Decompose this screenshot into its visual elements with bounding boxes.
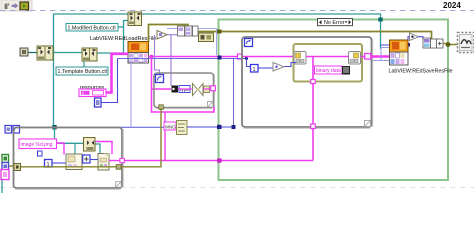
type box structure [154,73,215,109]
LoadResFile VI icon (orange) [128,42,149,53]
pink stub into type box [152,88,172,90]
long pink wire to case structure [125,160,314,162]
small tan node before tunnel [204,86,210,93]
blue wiring inside frame [245,57,296,68]
olive tunnel on loop left edge [14,164,21,171]
pink wire label to format node [57,143,65,155]
registration icon pair at left [5,126,20,134]
merge errors tan node [199,33,214,42]
pink tunnel on loop right edge [120,158,124,162]
frame corner icon (blue) [245,39,253,47]
blue tunnel on green left edge (bottom) [217,125,222,129]
terminal: error cluster (green) [2,155,9,163]
concat strings dark node [342,66,350,75]
black get-type node [172,86,179,93]
pink vertical via MNG label [164,112,166,161]
small blue node in loop [38,151,43,156]
pink vertical bus x=151.5 [152,57,215,113]
svg-text:type: type [180,87,189,93]
olive tunnel on type box bottom [159,105,164,110]
pink tunnel on frame bottom [311,124,316,129]
variant bowtie node [193,84,204,96]
violet vertical x=233.5 [233,59,235,126]
blue tunnel on green left edge [218,56,222,60]
terminal: refnum (blue) [2,163,9,171]
swap node top (lock ref) [128,12,142,26]
terminal: string (pink) [1,170,9,180]
teal wire at far bottom-left edge [1,180,3,193]
toolbar broken-run icon [5,3,10,9]
toolbar panel [1,0,32,11]
pink string bus junction at LoadRes output [150,55,154,59]
error out icon terminal [458,33,474,53]
pink wire swap to write icon [96,142,113,155]
error case structure (green border) [219,20,449,181]
pink wire inside IPE [306,56,365,58]
lavender wire upper run [167,29,217,56]
teal tunnel on green top edge [378,18,382,22]
register events node A [37,46,53,60]
frame corner fold [365,121,371,127]
olive tunnel on green left edge (top) [217,30,222,34]
pink wire inside type box [178,88,211,90]
MNG constant icon [177,121,188,135]
toolbar arrow icon [12,4,18,9]
numeric constant 1 [251,65,259,73]
olive wire node row to tunnel [443,44,459,45]
violet wire to blue icon of type box [155,35,160,75]
teal wire to swap node in bottom-left loop [55,129,84,154]
big gray frame (outer structure) [242,37,373,128]
blue junction square x=233.5 [232,125,236,129]
in-place element structure [294,44,363,82]
DVR write node [349,52,361,65]
binary data label [315,66,343,74]
blue wire from 8 icon to bus [101,59,118,103]
event reg refnum boxes [178,26,199,36]
loop corner fold [116,182,122,188]
increment triangle [273,63,284,72]
pink tunnel on IPE bottom [311,80,316,84]
pink wire write node to tunnel [109,160,120,162]
svg-text:1.Template Button.ctl: 1.Template Button.ctl [58,69,107,75]
minus-one node [83,155,90,163]
year text 2024 [443,1,461,10]
node row right (unbundle etc) [423,38,443,48]
pink vertical from IPE down across frames [312,57,314,161]
write file node [98,154,109,171]
pink tunnel on green left edge (bottom) [217,158,221,162]
svg-text:2024: 2024 [443,1,461,10]
svg-text:1.Modified Button.ctl: 1.Modified Button.ctl [68,25,116,31]
SaveResFile connector grid [390,52,409,65]
olive error wire top run [149,25,432,43]
case selector label "No Error" [318,19,353,27]
pink tunnel on frame right [365,54,371,60]
register events node B [82,48,97,61]
pink tunnel on type box right [211,86,216,91]
text LabVIEW:REdLoadResFile [90,36,156,42]
svg-text:1: 1 [253,67,256,73]
resources text [80,85,104,91]
pink tunnel on outer gray box left [238,54,243,59]
LoadResFile connector grid [128,53,149,64]
MNG label [164,122,176,130]
swap node in loop [84,138,96,152]
numeric constant 8 icon [95,98,102,107]
violet wire triangle to reg boxes [167,34,178,36]
format into string node [66,154,82,170]
to-variant triangle node [157,31,167,40]
blue wire 1 to format node [52,160,98,164]
type box corner fold [208,102,214,108]
resources cluster constant [79,89,106,97]
thick pink wire to SaveRes [371,55,391,57]
numeric constant 1 in loop [45,160,53,168]
olive tunnel on loop right edge [116,165,121,170]
blue int bus (y=58.5) [118,58,247,60]
teal wire from open node through register nodes [28,21,128,68]
bottom-left loop structure [14,128,124,190]
olive wire in loop [9,108,162,167]
thick pink wire cluster to LoadRes grid [106,54,128,93]
svg-text:image %d.png: image %d.png [21,142,53,148]
lavender wires near SaveRes grid [373,48,391,61]
svg-text:MNG: MNG [165,124,176,129]
SaveRes complex: triangle node [410,33,419,41]
DVR read node [294,52,306,65]
svg-text:LabVIEW:REdSaveResFile: LabVIEW:REdSaveResFile [389,69,453,75]
lavender vertical x=131 [130,59,132,128]
label 1.Modified Button.ctl [66,24,118,32]
SaveResFile VI icon (orange) [390,40,409,52]
blue iteration wire bottom run [20,126,234,128]
olive tunnel on green right edge [446,42,451,47]
page-boundary dashed line [0,11,474,188]
svg-text:No Error: No Error [324,20,345,26]
label 1.Template Button.ctl [56,67,108,75]
toolbar run-button icon [20,2,29,10]
teal refnum wire: main top run [54,14,381,129]
violet wire into type box tunnel [170,35,172,86]
teal tunnel into bottom-left loop [52,125,57,130]
text LabVIEW:REdSaveResFile [389,69,453,75]
teal wire swap node to write icon [96,144,101,155]
type label [179,86,190,94]
type box corner icon [156,75,164,83]
image %d.png label [19,139,57,149]
blue junction near SaveRes [380,37,410,50]
svg-text:binary data: binary data [316,68,341,74]
pink wire LoadRes to case (y=56.5) [149,56,295,58]
blue wire triangle to node row [419,37,424,40]
open/obtain node (small gray) [20,48,28,56]
